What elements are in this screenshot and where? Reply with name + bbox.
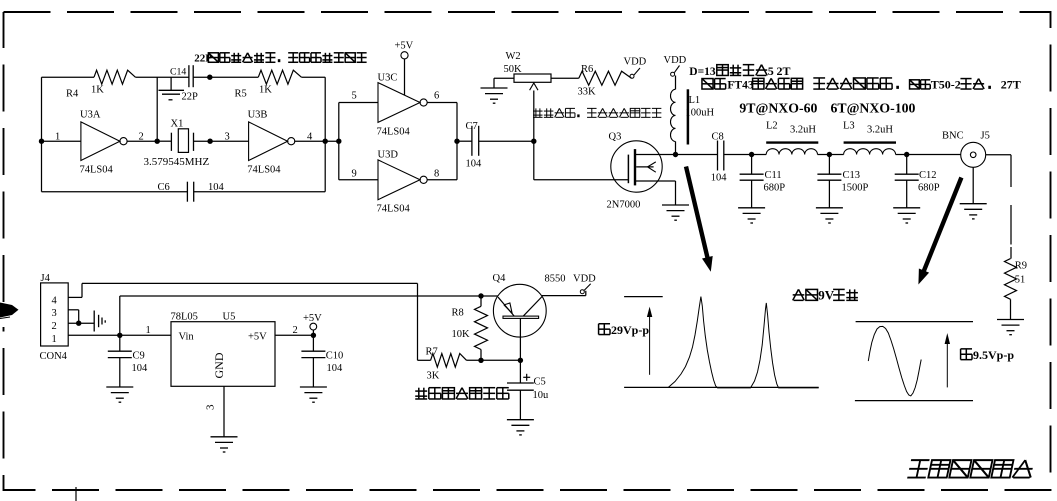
svg-text:104: 104 bbox=[327, 363, 344, 374]
ground at C11 bbox=[738, 208, 765, 223]
annotation 9T@NXO-60 bbox=[739, 101, 817, 116]
svg-text:VDD: VDD bbox=[624, 57, 647, 68]
resistor R4 bbox=[66, 70, 135, 99]
svg-text:U3B: U3B bbox=[248, 110, 268, 121]
svg-text:680P: 680P bbox=[764, 183, 786, 194]
svg-text:L1: L1 bbox=[689, 95, 701, 106]
junction C10 bbox=[311, 333, 316, 338]
ground at C12 bbox=[893, 208, 920, 223]
ground at C10 bbox=[300, 387, 327, 402]
annotation 22P crystal note bbox=[194, 53, 366, 65]
svg-text:27T: 27T bbox=[1001, 77, 1021, 91]
svg-text:Q4: Q4 bbox=[493, 273, 507, 284]
svg-text:C5: C5 bbox=[534, 377, 546, 388]
svg-text:6T@NXO-100: 6T@NXO-100 bbox=[831, 101, 916, 116]
svg-text:R4: R4 bbox=[66, 89, 79, 100]
capacitor C12 bbox=[895, 155, 940, 208]
svg-text:U3A: U3A bbox=[80, 110, 101, 121]
svg-text:6: 6 bbox=[434, 91, 439, 102]
svg-text:1K: 1K bbox=[91, 85, 104, 96]
svg-text:Q3: Q3 bbox=[609, 132, 622, 143]
pointer arrow to waveform 2 bbox=[918, 178, 961, 285]
waveform 2 sine trace bbox=[868, 326, 921, 396]
svg-text:D=13: D=13 bbox=[689, 66, 716, 78]
node 10 junction bbox=[827, 152, 832, 157]
wire BNC to R9 (broken) bbox=[986, 155, 1011, 259]
junction R8 top bbox=[478, 293, 483, 298]
svg-text:+5V: +5V bbox=[395, 41, 414, 52]
annotation power 9V note bbox=[793, 288, 858, 303]
wire U3C/U3D output bus bbox=[427, 103, 472, 180]
wire rail2 9V to Q4 base bbox=[120, 296, 498, 335]
ground at C14 bbox=[159, 77, 185, 100]
wire L3 to BNC bbox=[907, 154, 961, 156]
svg-text:78L05: 78L05 bbox=[171, 312, 198, 323]
ground at C13 bbox=[816, 208, 843, 223]
wire U5 pin3 bbox=[205, 386, 225, 437]
+5V terminal at U5 bbox=[303, 313, 322, 336]
svg-text:10K: 10K bbox=[452, 329, 471, 340]
pin 1 label bbox=[55, 131, 60, 142]
waveform 2 top line bbox=[856, 321, 973, 323]
svg-text:33K: 33K bbox=[578, 87, 597, 98]
resistor R9 bbox=[1005, 259, 1028, 300]
wire R9 to ground bbox=[1010, 299, 1012, 319]
pin 4 label bbox=[307, 131, 313, 142]
crystal X1 bbox=[144, 119, 210, 169]
pin 5 label bbox=[352, 91, 357, 102]
VDD terminal at L1 bbox=[664, 55, 687, 76]
svg-text:100uH: 100uH bbox=[686, 108, 715, 119]
inductor L1 bbox=[671, 76, 715, 155]
node 8 junction (drain-L1) bbox=[673, 152, 678, 157]
wire J4 pin2 bbox=[68, 322, 94, 324]
svg-text:+5V: +5V bbox=[248, 332, 267, 343]
inductor L2 bbox=[752, 121, 830, 155]
svg-text:5: 5 bbox=[352, 91, 357, 102]
svg-text:T50-2: T50-2 bbox=[931, 77, 961, 91]
wire C14 to node2b bbox=[193, 76, 210, 78]
svg-text:L2: L2 bbox=[766, 121, 778, 132]
svg-text:50K: 50K bbox=[504, 64, 523, 75]
annotation 9.5Vp-p bbox=[961, 348, 1015, 362]
svg-text:L3: L3 bbox=[843, 121, 855, 132]
svg-text:3K: 3K bbox=[427, 371, 440, 382]
chassis ground at J4 bbox=[94, 311, 105, 332]
ground at W2 bbox=[481, 88, 508, 103]
capacitor C7 bbox=[466, 121, 483, 170]
annotation keying click note bbox=[415, 388, 509, 399]
svg-text:Vin: Vin bbox=[179, 332, 195, 343]
annotation toroid T50-2 bbox=[813, 77, 1020, 91]
transistor Q4 8550 bbox=[493, 273, 566, 337]
svg-text:R7: R7 bbox=[426, 347, 438, 358]
svg-text:104: 104 bbox=[132, 363, 149, 374]
ground at Q3 source bbox=[662, 205, 689, 220]
op-amp U3B (74LS04 inverter) bbox=[247, 110, 295, 176]
junction C14-R5 bbox=[207, 75, 212, 80]
svg-text:1: 1 bbox=[52, 334, 57, 345]
pin 9 label bbox=[352, 169, 357, 180]
svg-text:9V: 9V bbox=[818, 288, 834, 303]
node 6 junction bbox=[454, 139, 459, 144]
svg-text:C8: C8 bbox=[712, 132, 724, 143]
wire Q4 collector bbox=[519, 318, 521, 360]
junction C5 top bbox=[518, 358, 523, 363]
capacitor C6 bbox=[42, 182, 326, 202]
svg-text:U5: U5 bbox=[223, 312, 236, 323]
node 4 junction bbox=[323, 139, 328, 144]
connector J4 CON4 bbox=[40, 273, 69, 362]
op-amp U3A (74LS04 inverter) bbox=[80, 110, 128, 176]
svg-text:2: 2 bbox=[293, 325, 298, 336]
node 9 junction bbox=[749, 152, 754, 157]
svg-text:9: 9 bbox=[352, 169, 357, 180]
junction pin2-pin3 bbox=[76, 321, 81, 326]
resistor R7 bbox=[418, 347, 521, 382]
wire W2 left to ground bbox=[494, 78, 514, 88]
svg-text:W2: W2 bbox=[506, 51, 521, 62]
node 1 junction bbox=[39, 139, 44, 144]
pin 1 label U5 bbox=[146, 325, 151, 336]
+5V terminal at U3C bbox=[395, 41, 414, 96]
svg-text:CON4: CON4 bbox=[40, 351, 68, 362]
svg-text:3.2uH: 3.2uH bbox=[867, 125, 893, 136]
wire U3A out bbox=[127, 140, 158, 142]
waveform 1 baseline bbox=[624, 386, 819, 388]
svg-text:C6: C6 bbox=[158, 182, 170, 193]
svg-text:29Vp-p: 29Vp-p bbox=[611, 323, 649, 337]
svg-text:R9: R9 bbox=[1015, 261, 1027, 272]
resistor R5 bbox=[235, 70, 302, 99]
svg-text:R6: R6 bbox=[581, 64, 593, 75]
svg-text:2T: 2T bbox=[777, 64, 791, 78]
resistor R6 bbox=[578, 64, 632, 98]
wire R5 to node4 bbox=[301, 77, 325, 192]
waveform 1 pulse trace bbox=[668, 297, 818, 388]
wire node3 to U3B bbox=[210, 140, 249, 142]
ground at BNC bbox=[960, 167, 987, 219]
svg-text:X1: X1 bbox=[171, 119, 184, 130]
svg-text:U3C: U3C bbox=[378, 72, 398, 83]
svg-text:J4: J4 bbox=[41, 273, 51, 284]
svg-text:U3D: U3D bbox=[378, 150, 399, 161]
svg-text:2: 2 bbox=[52, 321, 57, 332]
svg-text:+5V: +5V bbox=[303, 313, 322, 324]
svg-text:3.579545MHZ: 3.579545MHZ bbox=[144, 156, 210, 168]
svg-text:9.5Vp-p: 9.5Vp-p bbox=[973, 348, 1014, 362]
svg-text:1500P: 1500P bbox=[842, 183, 869, 194]
capacitor C9 bbox=[108, 335, 148, 387]
svg-text:51: 51 bbox=[1015, 275, 1026, 286]
svg-text:74LS04: 74LS04 bbox=[377, 204, 411, 215]
pin 2 label bbox=[139, 131, 144, 142]
inductor L3 bbox=[829, 121, 906, 155]
node 5 junction bbox=[336, 139, 341, 144]
svg-text:10u: 10u bbox=[533, 390, 550, 401]
svg-text:104: 104 bbox=[711, 173, 728, 184]
transistor Q3 2N7000 bbox=[607, 132, 676, 211]
wire U5 out bbox=[275, 334, 313, 336]
wire Q4 emitter to VDD bbox=[542, 291, 586, 296]
svg-text:9T@NXO-60: 9T@NXO-60 bbox=[739, 101, 817, 116]
svg-text:3: 3 bbox=[205, 404, 217, 410]
title 发射机和键控 bbox=[907, 460, 1034, 477]
op-amp U3C (74LS04 inverter) bbox=[377, 72, 428, 137]
op-amp U3D (74LS04 inverter) bbox=[377, 150, 428, 215]
svg-text:5: 5 bbox=[768, 64, 774, 78]
svg-text:3: 3 bbox=[225, 131, 230, 142]
pin 6 label bbox=[434, 91, 439, 102]
annotation toroid D=13 bbox=[689, 64, 790, 78]
wire gate bbox=[534, 141, 629, 180]
svg-text:GND: GND bbox=[212, 352, 226, 378]
connector J5 BNC bbox=[942, 131, 990, 168]
waveform 2 bottom line bbox=[855, 400, 973, 402]
waveform 1 arrow bbox=[647, 307, 652, 375]
svg-text:104: 104 bbox=[466, 159, 483, 170]
wire W2 to R6 bbox=[551, 77, 579, 79]
annotation bias adjust note bbox=[533, 108, 661, 117]
resistor R8 bbox=[452, 296, 488, 360]
ground at U5 pin3 bbox=[211, 437, 238, 452]
wire node1 left bus bbox=[42, 77, 81, 192]
keying input arrow bbox=[0, 303, 19, 319]
svg-text:C9: C9 bbox=[133, 350, 145, 361]
svg-text:R8: R8 bbox=[452, 308, 464, 319]
capacitor C11 bbox=[740, 155, 786, 208]
node 11 junction bbox=[904, 152, 909, 157]
svg-text:C10: C10 bbox=[326, 350, 344, 361]
svg-text:C11: C11 bbox=[765, 170, 782, 181]
wire J4 pin3 bbox=[68, 310, 79, 323]
svg-text:8550: 8550 bbox=[545, 274, 566, 285]
svg-text:74LS04: 74LS04 bbox=[377, 127, 411, 138]
ground at C9 bbox=[106, 387, 133, 402]
wire J4 pin4 to rail1 bbox=[68, 283, 417, 360]
annotation 29Vp-p bbox=[599, 323, 650, 337]
svg-text:3.2uH: 3.2uH bbox=[790, 125, 816, 136]
svg-text:C13: C13 bbox=[843, 170, 861, 181]
wire top feedback bbox=[42, 76, 95, 78]
capacitor C8 bbox=[676, 132, 752, 184]
pin 8 label bbox=[434, 169, 439, 180]
ground at R9 bbox=[997, 320, 1024, 335]
annotation 6T@NXO-100 bbox=[831, 101, 916, 116]
ground at C5 bbox=[507, 420, 534, 435]
svg-text:104: 104 bbox=[208, 182, 225, 193]
wire R4 to C14 bbox=[135, 77, 189, 141]
svg-text:VDD: VDD bbox=[664, 55, 687, 66]
potentiometer W2 bbox=[504, 51, 552, 141]
pin 3 label bbox=[225, 131, 230, 142]
capacitor C5 electrolytic bbox=[507, 360, 549, 419]
svg-text:2N7000: 2N7000 bbox=[607, 200, 641, 211]
capacitor C10 bbox=[301, 335, 343, 387]
junction C9 bbox=[117, 333, 122, 338]
core bar of L2 bbox=[766, 141, 818, 143]
annotation toroid FT43 bbox=[702, 78, 803, 91]
wire crystal to node3 bbox=[194, 140, 211, 142]
node 2 junction bbox=[155, 139, 160, 144]
svg-text:FT43: FT43 bbox=[727, 79, 753, 91]
wire C7 to W2 wiper bbox=[479, 140, 534, 142]
svg-text:BNC: BNC bbox=[942, 131, 964, 142]
svg-text:C12: C12 bbox=[919, 170, 937, 181]
capacitor C13 bbox=[817, 155, 868, 208]
svg-text:8: 8 bbox=[434, 169, 439, 180]
svg-text:C7: C7 bbox=[466, 121, 478, 132]
svg-text:1K: 1K bbox=[259, 85, 272, 96]
svg-text:C14: C14 bbox=[170, 67, 186, 78]
core bar of L3 bbox=[844, 141, 896, 143]
svg-text:680P: 680P bbox=[918, 183, 940, 194]
core bar of L1 bbox=[687, 89, 690, 144]
wire to crystal bbox=[157, 140, 171, 142]
node 7 junction bbox=[531, 139, 536, 144]
wire J4 pin1 to U5 bbox=[68, 334, 171, 336]
svg-text:VDD: VDD bbox=[573, 274, 596, 285]
wire U3C/U3D input bus bbox=[339, 103, 378, 180]
regulator U5 78L05 bbox=[171, 312, 276, 387]
waveform 1 reference line bbox=[624, 296, 663, 298]
VDD terminal at R6 bbox=[624, 57, 647, 79]
svg-text:22P: 22P bbox=[182, 92, 199, 103]
svg-text:J5: J5 bbox=[981, 131, 990, 142]
pointer arrow to waveform 1 bbox=[686, 167, 713, 272]
svg-text:4: 4 bbox=[52, 295, 58, 306]
capacitor C14 bbox=[170, 65, 198, 102]
svg-text:74LS04: 74LS04 bbox=[80, 165, 114, 176]
node 3 junction bbox=[207, 139, 212, 144]
svg-text:3: 3 bbox=[52, 308, 57, 319]
wire to R5 bbox=[210, 76, 258, 78]
svg-text:1: 1 bbox=[55, 131, 60, 142]
junction R8 bottom bbox=[478, 358, 483, 363]
VDD terminal at Q4 bbox=[573, 274, 596, 294]
svg-text:1: 1 bbox=[146, 325, 151, 336]
waveform 2 arrow bbox=[945, 333, 950, 387]
pin 2 label U5 bbox=[293, 325, 298, 336]
svg-text:74LS04: 74LS04 bbox=[247, 165, 281, 176]
svg-text:R5: R5 bbox=[235, 89, 247, 100]
wire U3B out bbox=[294, 140, 339, 142]
